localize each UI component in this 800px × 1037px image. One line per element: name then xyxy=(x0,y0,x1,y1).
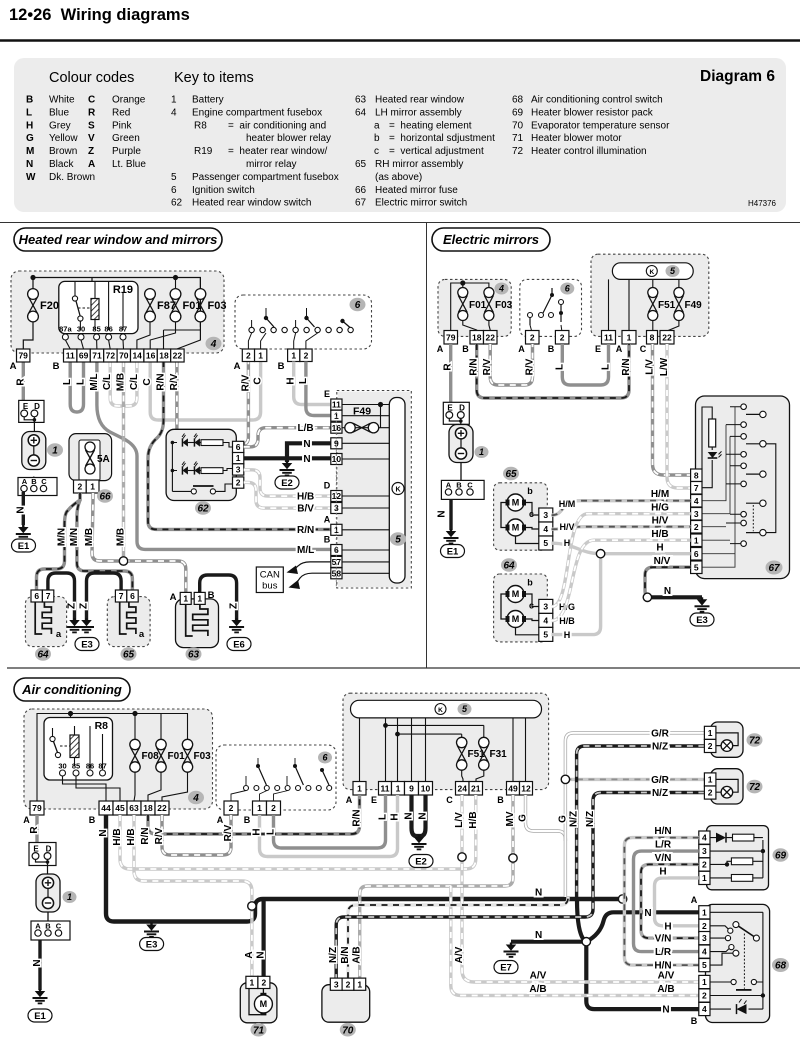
svg-text:86: 86 xyxy=(86,762,94,771)
svg-text:C: C xyxy=(56,922,62,931)
62 pins 6 1 3 2 xyxy=(233,441,244,452)
svg-text:2: 2 xyxy=(702,921,707,931)
wire H 65 pin5 to junction to 67 pin6 xyxy=(552,543,691,554)
svg-text:87: 87 xyxy=(119,325,127,334)
wire H/M 65 pin3 to 67 pin4 xyxy=(552,501,691,516)
ignition switch contacts xyxy=(249,327,254,332)
svg-text:M: M xyxy=(260,999,268,1009)
svg-text:2: 2 xyxy=(560,332,565,342)
svg-text:1: 1 xyxy=(236,453,241,463)
svg-text:2: 2 xyxy=(702,860,707,870)
svg-text:A: A xyxy=(244,951,255,958)
65 motors xyxy=(507,494,524,511)
AC wire R/V pin22 to ignition A2 xyxy=(162,815,231,855)
svg-text:N: N xyxy=(404,812,415,819)
svg-text:V/N: V/N xyxy=(655,934,672,945)
svg-text:62: 62 xyxy=(197,504,209,515)
EM wire R/V 22 to ignition A2 xyxy=(490,344,532,385)
svg-text:22: 22 xyxy=(173,351,183,361)
svg-text:Z: Z xyxy=(88,146,94,157)
svg-text:6: 6 xyxy=(130,591,135,601)
AC fusebox 5 outline xyxy=(343,693,549,789)
svg-text:N: N xyxy=(15,506,26,513)
earth E2 sec1 xyxy=(285,458,289,462)
svg-text:22: 22 xyxy=(486,332,496,342)
svg-text:L/W: L/W xyxy=(659,357,670,376)
svg-text:G: G xyxy=(26,133,34,144)
svg-text:A/B: A/B xyxy=(352,946,363,963)
svg-text:N/Z: N/Z xyxy=(569,811,580,827)
heated mirror fuse 66 box xyxy=(69,434,112,481)
AC fusebox4 pins 44 45 63 18 22 xyxy=(99,801,113,815)
svg-text:16: 16 xyxy=(332,423,342,433)
svg-text:6: 6 xyxy=(171,185,177,196)
EM fusebox 4 outline xyxy=(438,279,511,336)
svg-text:L/V: L/V xyxy=(645,359,656,375)
svg-text:E1: E1 xyxy=(447,546,459,557)
svg-text:B: B xyxy=(244,815,251,825)
svg-text:F03: F03 xyxy=(495,300,513,311)
fusebox4 pin 79 xyxy=(17,349,30,362)
svg-text:3: 3 xyxy=(236,465,241,475)
svg-text:Electric mirror switch: Electric mirror switch xyxy=(375,198,467,209)
svg-text:11: 11 xyxy=(66,351,75,361)
battery connector E D box sec1 xyxy=(19,400,44,422)
svg-text:B: B xyxy=(548,344,555,354)
AC wire L/V pin24 down to A/V to 68 pin1b xyxy=(462,795,699,982)
LH mirror assembly 64 box xyxy=(494,574,548,642)
64 pins 3 4 5 xyxy=(539,599,553,613)
relay R19 xyxy=(59,281,138,333)
section frame xyxy=(0,222,800,224)
svg-text:L: L xyxy=(298,378,309,384)
AC battery 1 xyxy=(36,874,60,912)
svg-text:B: B xyxy=(278,361,285,372)
svg-text:M/N: M/N xyxy=(69,528,80,546)
wire Z mirror64 pin7 to earth E3 xyxy=(48,573,75,620)
AC fuse F51 xyxy=(457,737,467,770)
svg-text:A: A xyxy=(324,514,331,524)
svg-text:R: R xyxy=(15,378,26,386)
earth E3 sec1 xyxy=(67,618,82,632)
svg-text:Purple: Purple xyxy=(112,146,141,157)
CAN bus box xyxy=(256,567,283,593)
svg-text:M: M xyxy=(512,589,520,599)
svg-text:4: 4 xyxy=(498,284,504,294)
svg-text:2: 2 xyxy=(708,741,713,751)
svg-text:Lt. Blue: Lt. Blue xyxy=(112,159,146,170)
battery connector A B C box sec1 xyxy=(18,478,57,496)
evaporator temperature sensor 70 box xyxy=(322,985,370,1023)
svg-text:F49: F49 xyxy=(685,300,703,311)
svg-text:7: 7 xyxy=(46,591,51,601)
svg-text:R8: R8 xyxy=(95,720,109,732)
svg-text:MV: MV xyxy=(505,811,516,826)
EM fuse F49 xyxy=(674,288,684,321)
AC ignition pins B 1 2 xyxy=(253,801,267,815)
AC ignition switch 6 box xyxy=(216,745,336,810)
svg-text:F08: F08 xyxy=(142,751,160,762)
svg-text:A/V: A/V xyxy=(454,946,465,963)
svg-text:R/N: R/N xyxy=(469,358,480,375)
svg-text:86: 86 xyxy=(104,325,112,334)
AC wire A/B tee to 68 pin2b xyxy=(451,886,699,996)
62 switch contacts xyxy=(172,490,191,492)
svg-text:(as above): (as above) xyxy=(375,172,422,183)
wire Z rear window 63 pinB to earth E6 xyxy=(200,575,237,620)
67 pin column xyxy=(691,469,702,482)
svg-text:H/G: H/G xyxy=(651,503,669,514)
wire H/B 62 pin3 to fusebox5 pin D12 xyxy=(244,470,331,496)
svg-text:H: H xyxy=(656,543,663,554)
svg-text:= horizontal sdjustment: = horizontal sdjustment xyxy=(389,133,495,144)
67 switch contacts xyxy=(741,404,747,410)
svg-text:A: A xyxy=(518,344,525,354)
svg-text:A: A xyxy=(691,895,698,905)
EM fusebox5 top bar xyxy=(612,263,693,280)
svg-text:79: 79 xyxy=(446,332,456,342)
fusebox5 pin column sec1 xyxy=(331,399,342,410)
svg-text:N: N xyxy=(644,908,651,919)
svg-text:b: b xyxy=(527,578,533,588)
fusebox4 top rail xyxy=(33,278,200,350)
69 pins 4 3 2 1 xyxy=(699,831,710,844)
wire M/N 66 pin2b to mirror65 pin6 xyxy=(77,493,132,590)
AC wire N drop to junction xyxy=(577,899,586,942)
wire H 69 pin1 to 68 pin2 xyxy=(655,878,699,926)
svg-text:E1: E1 xyxy=(18,541,30,552)
svg-text:Evaporator temperature sensor: Evaporator temperature sensor xyxy=(531,120,670,131)
fusebox 5 dashed outline sec1 xyxy=(337,391,412,589)
svg-text:1: 1 xyxy=(90,482,95,492)
svg-text:2: 2 xyxy=(271,803,276,813)
svg-text:N: N xyxy=(418,812,429,819)
svg-text:A: A xyxy=(88,159,95,170)
svg-text:64: 64 xyxy=(355,107,367,118)
svg-text:H/B: H/B xyxy=(651,529,668,540)
svg-text:W: W xyxy=(26,172,36,183)
svg-text:A: A xyxy=(346,795,353,805)
wire N battery to earth E1 sec1 xyxy=(22,492,25,525)
svg-text:2: 2 xyxy=(304,350,309,360)
EM wire L/V fusebox5 pin8 to switch67 pin8 xyxy=(653,344,692,475)
wire V/N 69 pin2 to 68 pin3 xyxy=(641,864,699,938)
svg-text:B: B xyxy=(31,477,37,486)
svg-text:4: 4 xyxy=(543,524,548,534)
wire L/R 69 pin3 to 68 pin4 xyxy=(634,851,699,952)
svg-text:R/N: R/N xyxy=(156,373,167,390)
svg-text:9: 9 xyxy=(409,783,414,793)
svg-text:E3: E3 xyxy=(81,639,93,650)
ignition switch pins A xyxy=(242,349,254,362)
svg-text:Electric mirrors: Electric mirrors xyxy=(443,232,539,247)
svg-text:Heated rear window and mirrors: Heated rear window and mirrors xyxy=(19,232,218,247)
AC fusebox5 pins xyxy=(353,782,366,796)
wire N/V 67 pin5 to junction xyxy=(645,567,691,597)
LH mirror heater 64 box xyxy=(25,597,66,647)
svg-text:30: 30 xyxy=(58,762,66,771)
svg-text:R: R xyxy=(443,363,454,371)
svg-text:5: 5 xyxy=(694,562,699,572)
svg-text:1: 1 xyxy=(702,977,707,987)
svg-text:H47376: H47376 xyxy=(748,199,777,208)
svg-text:B/V: B/V xyxy=(297,504,314,515)
svg-text:B: B xyxy=(462,344,469,354)
svg-text:1: 1 xyxy=(171,95,177,106)
svg-text:2: 2 xyxy=(708,788,713,798)
fuse F03 xyxy=(195,289,206,322)
svg-text:67: 67 xyxy=(355,198,367,209)
svg-text:C: C xyxy=(88,95,95,106)
svg-text:M: M xyxy=(26,146,34,157)
svg-text:F03: F03 xyxy=(194,751,212,762)
EM wire L ignition B2 to fusebox5 pin11 xyxy=(562,344,608,385)
svg-text:R/V: R/V xyxy=(169,373,180,390)
svg-text:3: 3 xyxy=(334,979,339,989)
EM wire R/N 18 to fusebox5 pin1 xyxy=(477,344,629,398)
svg-text:Engine compartment fusebox: Engine compartment fusebox xyxy=(192,107,322,118)
svg-text:2: 2 xyxy=(229,803,234,813)
svg-text:H/B: H/B xyxy=(297,492,314,503)
svg-text:12: 12 xyxy=(521,783,531,793)
svg-text:H/M: H/M xyxy=(651,489,669,500)
svg-text:B: B xyxy=(324,535,331,545)
svg-text:3: 3 xyxy=(702,846,707,856)
svg-text:4: 4 xyxy=(702,833,707,843)
svg-text:CAN: CAN xyxy=(260,570,280,581)
svg-text:G/R: G/R xyxy=(651,775,670,786)
svg-text:L: L xyxy=(62,379,73,385)
svg-text:1: 1 xyxy=(702,873,707,883)
fuse F49 sec1 xyxy=(345,423,379,433)
svg-text:2: 2 xyxy=(246,350,251,360)
RH mirror assembly 65 box xyxy=(494,483,548,550)
svg-text:Heated rear window switch: Heated rear window switch xyxy=(192,198,312,209)
AC wire L ignition B2 to fusebox5 pin11 xyxy=(274,795,386,848)
AC wire N pin44 main feed xyxy=(106,815,621,922)
wire M/N 66 pin2 to mirror64 pin6 xyxy=(37,493,81,590)
svg-text:16: 16 xyxy=(146,351,156,361)
svg-text:M/L: M/L xyxy=(297,545,314,556)
67 internals resistor xyxy=(709,419,716,447)
svg-text:N: N xyxy=(98,829,109,836)
svg-text:2: 2 xyxy=(78,482,83,492)
svg-text:2: 2 xyxy=(530,332,535,342)
AC wire B/N sensor70 pin2 xyxy=(348,897,568,978)
svg-text:N: N xyxy=(535,930,542,941)
svg-text:1: 1 xyxy=(183,593,188,603)
svg-text:A/B: A/B xyxy=(657,984,674,995)
svg-text:F01: F01 xyxy=(469,300,487,311)
svg-text:63: 63 xyxy=(188,650,200,661)
svg-text:18: 18 xyxy=(159,351,169,361)
fuse F87 xyxy=(145,289,156,322)
svg-text:bus: bus xyxy=(262,581,278,592)
svg-text:N/V: N/V xyxy=(654,556,671,567)
svg-text:66: 66 xyxy=(99,492,111,503)
svg-text:Passenger compartment fusebox: Passenger compartment fusebox xyxy=(192,172,339,183)
svg-text:N/Z: N/Z xyxy=(328,947,339,963)
junction M/B xyxy=(119,557,127,565)
svg-text:C: C xyxy=(253,377,264,384)
svg-text:1: 1 xyxy=(250,977,255,987)
svg-text:69: 69 xyxy=(775,851,787,862)
svg-text:1: 1 xyxy=(67,892,72,902)
AC fusebox5 risers xyxy=(360,718,526,782)
wire H junction down to 64 pin5 xyxy=(552,554,601,635)
svg-text:8: 8 xyxy=(650,332,655,342)
svg-text:H/V: H/V xyxy=(559,522,574,532)
svg-text:L: L xyxy=(266,829,277,835)
wire H/B 64 pin4 to 67 pin1 xyxy=(552,540,691,621)
svg-text:5: 5 xyxy=(543,538,548,548)
svg-text:1: 1 xyxy=(702,907,707,917)
svg-text:M/B: M/B xyxy=(116,528,127,546)
68 pins upper 1-5 xyxy=(699,906,710,919)
wire H/V 65 pin4 to 67 pin2 xyxy=(552,527,691,530)
EM wire L/W fusebox5 pin22 to switch67 pin7 xyxy=(667,344,691,488)
svg-text:M/B: M/B xyxy=(84,528,95,546)
62 indicator LEDs xyxy=(182,438,188,446)
AC wire N/Z lamp2 to sensor70 pin3 xyxy=(336,793,704,979)
svg-text:K: K xyxy=(438,707,443,714)
svg-text:M: M xyxy=(512,523,520,533)
svg-text:4: 4 xyxy=(210,339,217,350)
fusebox 5 fill sec1 xyxy=(338,392,411,588)
svg-text:Heater control illumination: Heater control illumination xyxy=(531,146,647,157)
svg-text:1: 1 xyxy=(708,775,713,785)
svg-text:11: 11 xyxy=(604,332,613,342)
svg-text:21: 21 xyxy=(471,783,481,793)
svg-text:72: 72 xyxy=(749,782,761,793)
fuse 5A xyxy=(85,442,95,474)
svg-text:M: M xyxy=(512,614,520,624)
svg-text:3: 3 xyxy=(694,509,699,519)
wire L loop pins 11-69 xyxy=(70,361,83,412)
svg-text:F20: F20 xyxy=(40,300,59,312)
svg-text:Z: Z xyxy=(67,603,78,609)
svg-text:5: 5 xyxy=(543,629,548,639)
svg-text:E: E xyxy=(371,795,377,805)
svg-text:4: 4 xyxy=(694,496,699,506)
wire C pin16 to ignition switch pin A1 xyxy=(150,361,260,420)
svg-text:Blue: Blue xyxy=(49,107,69,118)
svg-text:Orange: Orange xyxy=(112,95,146,106)
svg-text:Z: Z xyxy=(229,603,240,609)
svg-text:E3: E3 xyxy=(146,939,158,950)
svg-text:E3: E3 xyxy=(696,615,708,626)
RH mirror heater 65 box xyxy=(107,597,150,647)
AC wire H/B pin45 to fusebox5 pin21 xyxy=(120,795,476,869)
svg-text:K: K xyxy=(395,487,400,494)
svg-text:C/L: C/L xyxy=(102,374,113,390)
earth E1 sec1 xyxy=(16,525,31,539)
svg-text:N/Z: N/Z xyxy=(585,811,596,827)
svg-text:A: A xyxy=(23,815,30,825)
svg-text:N: N xyxy=(303,439,310,450)
svg-text:E2: E2 xyxy=(415,856,427,867)
svg-text:70: 70 xyxy=(512,120,524,131)
svg-text:a: a xyxy=(374,120,380,131)
wire R/V pin22 to ignition switch pin A2 xyxy=(177,361,249,445)
svg-text:A/V: A/V xyxy=(658,971,675,982)
relay R8 xyxy=(44,718,113,781)
svg-text:N: N xyxy=(303,454,310,465)
heater control illumination 72 lamp1 xyxy=(711,722,743,757)
svg-text:R19: R19 xyxy=(194,146,213,157)
svg-text:H: H xyxy=(286,377,297,384)
svg-text:H: H xyxy=(390,813,401,820)
EM ignition switch 6 box xyxy=(520,279,582,336)
svg-text:B/N: B/N xyxy=(340,946,351,963)
svg-text:6: 6 xyxy=(34,591,39,601)
fusebox 4 outline xyxy=(11,271,224,353)
svg-text:72: 72 xyxy=(106,351,116,361)
AC wire MV pin49 to sensor70 pin1 A/B xyxy=(360,795,513,978)
svg-text:4: 4 xyxy=(192,793,199,804)
svg-text:M: M xyxy=(512,498,520,508)
svg-text:72: 72 xyxy=(512,146,524,157)
svg-text:K: K xyxy=(649,269,654,276)
svg-text:Green: Green xyxy=(112,133,140,144)
AC fusebox 4 outline xyxy=(24,709,213,809)
svg-text:72: 72 xyxy=(749,736,761,747)
svg-text:L: L xyxy=(76,379,87,385)
svg-text:L: L xyxy=(378,814,389,820)
svg-text:N: N xyxy=(26,159,33,170)
AC fusebox5 top bar xyxy=(351,700,542,718)
EM battery connector E D box xyxy=(443,402,469,424)
svg-text:F01: F01 xyxy=(168,751,186,762)
svg-text:64: 64 xyxy=(503,561,515,572)
AC ignition pin A2 xyxy=(224,801,238,815)
wire H/N 69 pin4 to 68 pin5 xyxy=(624,838,698,966)
svg-text:1: 1 xyxy=(396,783,401,793)
svg-text:Black: Black xyxy=(49,159,74,170)
svg-text:E: E xyxy=(324,389,330,399)
AC wire N to blower motor 71 pin2 xyxy=(262,899,266,976)
AC fuse F01 xyxy=(156,739,166,772)
AC fusebox4 rail xyxy=(37,714,188,802)
svg-text:mirror relay: mirror relay xyxy=(246,159,297,170)
svg-text:2: 2 xyxy=(346,979,351,989)
fuse F20 xyxy=(28,289,39,322)
AC wire N pins 9 10 to earth E2 xyxy=(412,795,420,836)
svg-text:H: H xyxy=(564,630,571,640)
svg-text:C: C xyxy=(446,795,453,805)
svg-text:N: N xyxy=(437,510,448,517)
svg-text:H/M: H/M xyxy=(559,499,576,509)
svg-text:R/N: R/N xyxy=(621,358,632,375)
svg-text:A: A xyxy=(217,815,224,825)
svg-text:Colour codes: Colour codes xyxy=(49,70,134,86)
svg-text:A: A xyxy=(616,344,623,354)
heater control illumination 72 lamp2 xyxy=(711,769,743,804)
svg-text:= air conditioning and: = air conditioning and xyxy=(228,120,326,131)
svg-text:C: C xyxy=(142,378,153,385)
AC ignition contacts xyxy=(244,786,249,791)
svg-text:= heating element: = heating element xyxy=(389,120,472,131)
svg-text:H: H xyxy=(659,866,666,877)
svg-text:1: 1 xyxy=(357,783,362,793)
svg-text:5: 5 xyxy=(171,172,177,183)
svg-text:H/N: H/N xyxy=(654,826,671,837)
svg-text:F31: F31 xyxy=(490,749,508,760)
svg-text:B: B xyxy=(497,795,504,805)
svg-text:H/B: H/B xyxy=(112,828,123,845)
wire C/L loop pins 72-14 xyxy=(110,361,137,406)
EM ignition contacts xyxy=(528,313,533,318)
